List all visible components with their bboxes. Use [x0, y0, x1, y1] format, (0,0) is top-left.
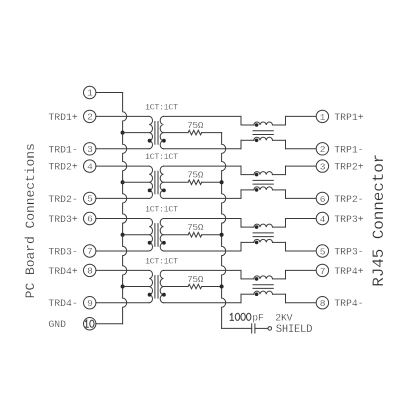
junction: bus to T4 primary center tap: [121, 285, 125, 289]
pin 7 (PC board side): [84, 245, 96, 257]
transformer T4 1CT:1CT: [145, 256, 178, 302]
svg-text:1CT:1CT: 1CT:1CT: [145, 152, 178, 162]
pin 4 (PC board side): [84, 160, 96, 172]
svg-text:8: 8: [87, 266, 93, 277]
termination bus wire (75&#937; commons to shield cap): [222, 133, 226, 329]
pin 5 (PC board side): [84, 192, 96, 204]
svg-text:TRD2+: TRD2+: [48, 162, 78, 173]
svg-text:TRD1-: TRD1-: [48, 144, 77, 155]
svg-text:pF 2KV: pF 2KV: [252, 312, 292, 323]
svg-text:TRP2+: TRP2+: [334, 162, 364, 173]
pin 10 (PC board side): [84, 318, 96, 330]
label TRD2-: [48, 194, 77, 205]
wire bus bottom to capacitor: [222, 327, 252, 329]
svg-text:TRP1-: TRP1-: [334, 144, 363, 155]
label GND: [48, 319, 66, 330]
svg-text:9: 9: [87, 298, 93, 309]
svg-text:TRD2-: TRD2-: [48, 194, 77, 205]
svg-text:SHIELD: SHIELD: [276, 324, 312, 336]
label TRP1-: [334, 144, 363, 155]
label TRD4-: [48, 298, 77, 309]
label TRP4-: [334, 298, 363, 309]
label TRP2-: [334, 194, 363, 205]
wire bus to T4 primary center tap: [123, 286, 150, 288]
wire pin9 to T4 primary bottom: [96, 302, 149, 304]
label TRP3-: [334, 247, 363, 258]
wire T1 secondary top to choke L1: [164, 115, 242, 117]
svg-text:75Ω: 75Ω: [187, 170, 204, 181]
transformer T2 1CT:1CT: [145, 152, 178, 198]
pin 6 (PC board side): [84, 212, 96, 224]
pin 8 (PC board side): [84, 264, 96, 276]
svg-text:5: 5: [87, 194, 93, 205]
common-mode choke L2: [241, 166, 286, 198]
pin 6 (RJ45 side): [316, 192, 328, 205]
svg-text:GND: GND: [48, 319, 66, 330]
svg-text:7: 7: [320, 266, 325, 277]
svg-text:TRD3-: TRD3-: [48, 247, 77, 258]
svg-text:2: 2: [320, 144, 326, 155]
transformer T1 1CT:1CT: [145, 102, 178, 148]
label TRD3+: [48, 214, 78, 225]
left title: PC Board Connections: [23, 143, 38, 298]
transformer T3 1CT:1CT: [145, 205, 178, 251]
svg-text:75Ω: 75Ω: [187, 222, 204, 233]
wire choke L3 to RJ45 pin (pair 3 -): [286, 250, 317, 252]
left center-tap bus wire (pin1 to pin10): [123, 93, 127, 324]
svg-text:TRP3-: TRP3-: [334, 247, 363, 258]
pin 9 (PC board side): [84, 297, 96, 309]
label TRP3+: [334, 214, 364, 225]
junction: termination bus to 75&#937; resistor 4: [220, 285, 224, 289]
resistor 75&#937; (T2 secondary center tap): [164, 170, 222, 185]
svg-text:8: 8: [320, 298, 326, 309]
svg-text:75Ω: 75Ω: [187, 120, 204, 131]
wire T3 secondary top to choke L3: [164, 218, 242, 220]
label TRP2+: [334, 162, 364, 173]
svg-text:TRD4+: TRD4+: [48, 266, 78, 277]
label TRD1+: [48, 112, 78, 123]
pin 3 (RJ45 side): [316, 160, 328, 173]
svg-text:TRP4-: TRP4-: [334, 298, 363, 309]
common-mode choke L1: [241, 116, 286, 148]
svg-text:5: 5: [320, 246, 326, 257]
wire choke L4 to RJ45 pin (pair 4 -): [286, 302, 317, 304]
wire pin3 to T1 primary bottom: [96, 148, 149, 150]
wire pin5 to T2 primary bottom: [96, 197, 149, 199]
wire T1 secondary bottom to choke L1: [164, 148, 242, 150]
wire T2 secondary bottom to choke L2: [164, 197, 242, 199]
resistor 75&#937; (T4 secondary center tap): [164, 274, 222, 289]
common-mode choke L3: [241, 219, 286, 252]
label TRP1+: [334, 112, 364, 123]
label TRD1-: [48, 144, 77, 155]
wire pin7 to T3 primary bottom: [96, 250, 149, 252]
label TRD3-: [48, 247, 77, 258]
resistor 75&#937; (T3 secondary center tap): [164, 222, 222, 237]
wire pin8 to T4 primary top: [96, 269, 149, 271]
junction: bus to T1 primary center tap: [121, 131, 125, 135]
svg-text:TRD1+: TRD1+: [48, 112, 78, 123]
svg-text:TRP4+: TRP4+: [334, 266, 364, 277]
svg-text:RJ45 Connector: RJ45 Connector: [370, 154, 388, 287]
svg-text:4: 4: [87, 161, 93, 172]
wire bus to T1 primary center tap: [123, 132, 150, 134]
svg-text:1: 1: [320, 112, 326, 123]
label TRD4+: [48, 266, 78, 277]
wire choke L1 to RJ45 pin (pair 1 -): [286, 148, 317, 150]
svg-text:TRP2-: TRP2-: [334, 194, 363, 205]
svg-text:3: 3: [87, 144, 93, 155]
wire T2 secondary top to choke L2: [164, 165, 242, 167]
wire T4 secondary bottom to choke L4: [164, 302, 242, 304]
junction: termination bus to 75&#937; resistor 2: [220, 180, 224, 184]
svg-text:1CT:1CT: 1CT:1CT: [145, 102, 178, 112]
pin 1 (RJ45 side): [316, 110, 328, 123]
resistor 75&#937; (T1 secondary center tap): [164, 120, 222, 135]
svg-text:TRP3+: TRP3+: [334, 214, 364, 225]
right title: RJ45 Connector: [370, 154, 388, 287]
svg-text:3: 3: [320, 162, 326, 173]
pin 1 (PC board side): [84, 86, 96, 98]
pin 7 (RJ45 side): [316, 264, 328, 277]
svg-text:PC Board Connections: PC Board Connections: [23, 143, 38, 298]
pin 8 (RJ45 side): [316, 297, 328, 310]
wire choke L4 to RJ45 pin (pair 4 +): [286, 269, 317, 271]
common-mode choke L4: [241, 270, 286, 302]
svg-text:6: 6: [87, 214, 93, 225]
wire pin6 to T3 primary top: [96, 218, 149, 220]
wire bus to T2 primary center tap: [123, 181, 150, 183]
junction: bus to T3 primary center tap: [121, 233, 125, 237]
svg-text:TRD3+: TRD3+: [48, 214, 78, 225]
wire T3 secondary bottom to choke L3: [164, 250, 242, 252]
svg-text:7: 7: [87, 246, 92, 257]
label TRP4+: [334, 266, 364, 277]
pin 3 (PC board side): [84, 143, 96, 155]
wire choke L1 to RJ45 pin (pair 1 +): [286, 115, 317, 117]
pin 2 (RJ45 side): [316, 143, 328, 156]
wire T4 secondary top to choke L4: [164, 269, 242, 271]
pin 4 (RJ45 side): [316, 212, 328, 225]
svg-text:TRP1+: TRP1+: [334, 112, 364, 123]
wire pin1 to center-tap bus: [96, 92, 123, 94]
svg-text:4: 4: [320, 214, 326, 225]
junction: bus to T2 primary center tap: [121, 180, 125, 184]
svg-text:1: 1: [87, 88, 93, 99]
wire choke L3 to RJ45 pin (pair 3 +): [286, 218, 317, 220]
wire choke L2 to RJ45 pin (pair 2 +): [286, 165, 317, 167]
label TRD2+: [48, 162, 78, 173]
svg-text:TRD4-: TRD4-: [48, 298, 77, 309]
wire choke L2 to RJ45 pin (pair 2 -): [286, 197, 317, 199]
wire bus to T3 primary center tap: [123, 234, 150, 236]
wire capacitor to shield terminal: [255, 327, 268, 329]
pin 5 (RJ45 side): [316, 245, 328, 258]
capacitor 1000pF 2KV: [230, 312, 292, 333]
wire pin4 to T2 primary top: [96, 165, 149, 167]
svg-text:2: 2: [87, 112, 93, 123]
svg-text:75Ω: 75Ω: [187, 274, 204, 285]
svg-text:1CT:1CT: 1CT:1CT: [145, 205, 178, 215]
svg-text:1CT:1CT: 1CT:1CT: [145, 256, 178, 266]
wire pin10 GND to center-tap bus bottom: [96, 323, 123, 325]
svg-text:6: 6: [320, 194, 326, 205]
node SHIELD terminal: [268, 324, 312, 336]
junction: termination bus to 75&#937; resistor 3: [220, 233, 224, 237]
pin 2 (PC board side): [84, 110, 96, 122]
wire pin2 to T1 primary top: [96, 115, 149, 117]
